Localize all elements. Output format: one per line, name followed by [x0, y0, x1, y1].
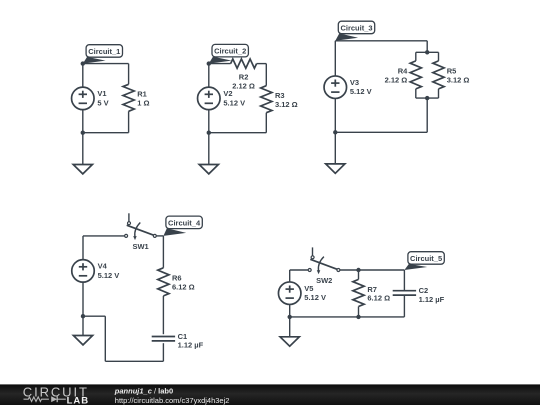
wire — [82, 109, 84, 132]
label C1 value — [178, 332, 204, 350]
resistor R2 — [231, 59, 257, 68]
svg-text:R5: R5 — [447, 67, 457, 76]
node bottom-left C4 — [81, 314, 85, 318]
voltage source V4 — [72, 260, 95, 283]
wire — [83, 132, 129, 134]
wire — [105, 360, 163, 362]
svg-text:R1: R1 — [137, 90, 147, 99]
label R2 value — [232, 73, 255, 91]
wire — [289, 305, 291, 317]
svg-text:6.12 Ω: 6.12 Ω — [172, 283, 195, 292]
wire — [128, 111, 130, 132]
label V5 value — [304, 284, 326, 302]
label V3 value — [350, 78, 372, 96]
net flag Circuit_4 — [163, 216, 202, 236]
svg-text:R2: R2 — [239, 73, 249, 82]
wire — [334, 99, 336, 133]
wire — [208, 109, 210, 132]
wire — [82, 282, 84, 316]
wire — [438, 89, 440, 98]
switch SW1 — [125, 213, 157, 251]
svg-text:V1: V1 — [97, 89, 106, 98]
node bottom-left C1 — [81, 131, 85, 135]
wire — [82, 236, 84, 260]
svg-text:LAB: LAB — [67, 395, 90, 405]
svg-text:2.12 Ω: 2.12 Ω — [232, 81, 255, 90]
voltage source V1 — [72, 87, 95, 110]
node top-left C2 — [207, 61, 211, 65]
wire — [416, 97, 439, 99]
logo diode — [51, 396, 57, 402]
wire — [358, 270, 360, 279]
svg-text:R6: R6 — [172, 274, 182, 283]
resistor R3 — [261, 86, 272, 113]
node bottom-left C2 — [207, 131, 211, 135]
svg-text:Circuit_1: Circuit_1 — [88, 47, 120, 56]
wire — [415, 89, 417, 98]
voltage source V2 — [198, 87, 221, 110]
wire — [416, 51, 439, 53]
svg-text:V4: V4 — [98, 262, 108, 271]
svg-text:http://circuitlab.com/c37yxdj4: http://circuitlab.com/c37yxdj4h3ej2 — [115, 396, 230, 405]
svg-text:V5: V5 — [304, 284, 313, 293]
wire — [209, 132, 266, 134]
resistor R4 — [410, 61, 421, 89]
wire — [415, 52, 417, 61]
net flag Circuit_1 — [83, 45, 123, 64]
wire — [128, 64, 130, 85]
svg-text:1.12 µF: 1.12 µF — [178, 341, 204, 350]
wire — [358, 307, 360, 317]
svg-text:6.12 Ω: 6.12 Ω — [367, 294, 390, 303]
ground — [280, 317, 299, 346]
resistor R5 — [433, 61, 444, 89]
svg-text:pannuj1_c / lab0: pannuj1_c / lab0 — [114, 386, 173, 395]
svg-text:R3: R3 — [275, 91, 285, 100]
net flag Circuit_2 — [209, 44, 249, 63]
wire — [265, 113, 267, 133]
wire — [104, 316, 106, 361]
resistor R1 — [123, 84, 134, 111]
junction parallel bottom — [425, 96, 429, 100]
svg-text:5 V: 5 V — [97, 98, 108, 107]
svg-text:SW2: SW2 — [316, 276, 332, 285]
svg-text:Circuit_3: Circuit_3 — [340, 23, 372, 32]
svg-text:Circuit_2: Circuit_2 — [214, 47, 246, 56]
ground — [326, 132, 345, 173]
wire — [334, 41, 336, 76]
svg-text:R4: R4 — [398, 67, 408, 76]
wire — [82, 64, 84, 88]
wire — [290, 269, 308, 271]
label R3 value — [275, 91, 298, 109]
node bottom-left C5 — [288, 315, 292, 319]
net flag Circuit_3 — [335, 21, 374, 41]
wire — [83, 315, 105, 317]
ground — [73, 316, 92, 345]
footer bar — [0, 384, 540, 405]
node bottom-left C3 — [333, 130, 337, 134]
capacitor C1 — [152, 337, 175, 341]
svg-text:5.12 V: 5.12 V — [304, 293, 326, 302]
label V1 value — [97, 89, 108, 107]
capacitor C2 — [393, 291, 416, 295]
wire — [257, 63, 267, 65]
net flag Circuit_5 — [404, 252, 444, 270]
wire — [162, 296, 164, 334]
svg-text:5.12 V: 5.12 V — [350, 87, 372, 96]
node R7 bottom — [356, 315, 360, 319]
node top-left C1 — [81, 61, 85, 65]
wire — [156, 235, 163, 237]
label R6 value — [172, 274, 195, 292]
label R5 value — [447, 67, 470, 85]
wire — [426, 41, 428, 53]
wire — [426, 98, 428, 132]
wire — [162, 236, 164, 268]
logo resistor squiggle — [24, 397, 49, 402]
label V4 value — [98, 262, 120, 280]
voltage source V5 — [278, 282, 301, 305]
resistor R7 — [353, 279, 364, 306]
label R4 value — [385, 67, 409, 85]
node R7 top — [356, 268, 360, 272]
wire — [83, 235, 125, 237]
svg-text:2.12 Ω: 2.12 Ω — [385, 76, 408, 85]
label V2 value — [223, 89, 245, 107]
svg-text:SW1: SW1 — [132, 242, 148, 251]
wire — [403, 270, 405, 291]
svg-text:Circuit_4: Circuit_4 — [168, 218, 201, 227]
junction parallel top — [425, 50, 429, 54]
svg-text:3.12 Ω: 3.12 Ω — [275, 100, 298, 109]
wire — [162, 343, 164, 361]
wire — [208, 64, 210, 88]
svg-text:5.12 V: 5.12 V — [223, 98, 245, 107]
label R1 value — [137, 90, 149, 108]
label C2 value — [419, 286, 445, 304]
svg-text:R7: R7 — [367, 285, 377, 294]
wire — [289, 270, 291, 282]
svg-text:V3: V3 — [350, 78, 359, 87]
voltage source V3 — [324, 76, 347, 99]
svg-text:5.12 V: 5.12 V — [98, 271, 120, 280]
wire — [265, 64, 267, 86]
svg-text:1 Ω: 1 Ω — [137, 99, 149, 108]
switch SW2 — [308, 247, 340, 285]
svg-text:Circuit_5: Circuit_5 — [410, 254, 442, 263]
resistor R6 — [158, 268, 169, 296]
label R7 value — [367, 285, 390, 303]
wire — [83, 63, 129, 65]
wire — [340, 269, 404, 271]
ground — [199, 133, 218, 174]
wire — [403, 295, 405, 317]
svg-text:3.12 Ω: 3.12 Ω — [447, 76, 470, 85]
wire — [335, 40, 427, 42]
svg-text:1.12 µF: 1.12 µF — [419, 295, 445, 304]
wire — [209, 63, 231, 65]
wire — [290, 316, 405, 318]
svg-text:V2: V2 — [223, 89, 232, 98]
ground — [73, 133, 92, 174]
wire — [335, 131, 427, 133]
wire — [438, 52, 440, 61]
